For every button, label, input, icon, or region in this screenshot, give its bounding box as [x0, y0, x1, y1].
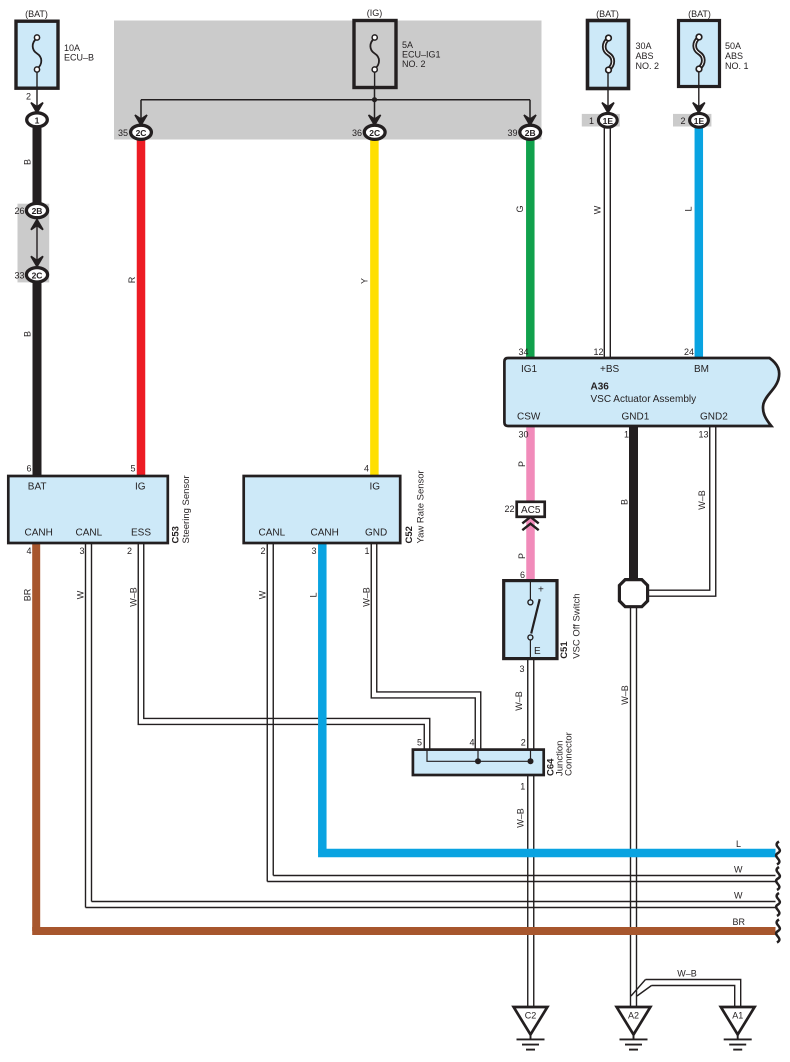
svg-text:2B: 2B — [525, 128, 536, 138]
svg-text:50A: 50A — [725, 41, 741, 51]
svg-text:L: L — [684, 206, 694, 211]
svg-text:+BS: +BS — [600, 364, 620, 375]
wire P: AC5 to C51 pin 6 — [526, 516, 535, 581]
arrow into 1E (2) — [693, 103, 705, 113]
wire B: 2C to C53 BAT pin 6 — [33, 280, 42, 476]
svg-text:6: 6 — [26, 464, 31, 474]
ground symbol C2 — [517, 1035, 545, 1050]
connector oval 2B (39) — [520, 125, 541, 139]
wire: double arrow link 2B to 2C — [36, 220, 38, 265]
wire: fuse 50A lead — [698, 75, 700, 108]
wire R: connector 2C(35) to C53 IG pin 5 — [137, 139, 146, 476]
svg-text:A1: A1 — [732, 1011, 743, 1021]
svg-text:10A: 10A — [64, 43, 80, 53]
svg-text:3: 3 — [79, 546, 84, 556]
svg-text:CANH: CANH — [25, 528, 53, 539]
svg-text:(BAT): (BAT) — [688, 9, 711, 19]
arrow into 2C (36) — [369, 115, 381, 125]
svg-text:2: 2 — [127, 546, 132, 556]
gray panel (2B/2C in-line connector) — [18, 204, 50, 283]
svg-text:5A: 5A — [402, 40, 413, 50]
svg-text:34: 34 — [518, 347, 528, 357]
svg-text:C52: C52 — [404, 526, 415, 543]
gray tag behind 1E connector 2 — [673, 114, 711, 127]
wire L: connector 1E(2) to A36 BM pin 24 — [695, 127, 704, 358]
connector oval 1E (2) — [690, 113, 709, 127]
svg-text:1: 1 — [589, 116, 594, 126]
junction dot C64 pin2 — [528, 758, 534, 764]
svg-text:(BAT): (BAT) — [596, 9, 619, 19]
ground triangle A2 — [617, 1007, 651, 1035]
fuse 5A ECU-IG1 NO.2 — [354, 21, 396, 88]
bus W lower — [86, 902, 776, 908]
svg-text:22: 22 — [504, 504, 514, 514]
svg-text:35: 35 — [118, 128, 128, 138]
svg-text:2: 2 — [680, 116, 685, 126]
svg-text:36: 36 — [352, 128, 362, 138]
svg-text:13: 13 — [698, 430, 708, 440]
junction dot under IG fuse — [372, 97, 377, 102]
wire: fuse 50A inner lead — [698, 72, 700, 87]
wire W-B: C52 GND pin 1 to C64 pin 4 — [371, 543, 481, 750]
connector oval 2B (26) with arrows — [31, 220, 43, 230]
fuse 50A ABS NO.1 — [679, 21, 720, 87]
connector oval 1E (1) — [598, 113, 617, 127]
wire W-B: A36 GND2 pin 13 down and left into octagon — [647, 426, 716, 596]
wire Y: connector 2C(36) to C52 IG pin 4 — [370, 139, 379, 476]
octagon junction — [619, 580, 647, 607]
svg-text:33: 33 — [14, 271, 24, 281]
connector oval 2C (36) — [364, 125, 385, 139]
arrow into connector 1 — [31, 103, 43, 113]
svg-text:C2: C2 — [525, 1011, 537, 1021]
wire: fuse 10A lead to connector 1 — [36, 88, 38, 108]
svg-text:C51: C51 — [559, 641, 570, 659]
svg-text:VSC Off Switch: VSC Off Switch — [572, 594, 583, 659]
wire: IG fuse lead and branch line — [141, 88, 530, 120]
svg-text:IG: IG — [370, 482, 381, 493]
wire: fuse 30A inner lead — [607, 73, 609, 89]
wire W: C53 CANL pin 3 to lower W bus — [86, 543, 92, 908]
svg-text:W: W — [258, 590, 268, 599]
svg-text:L: L — [736, 839, 741, 849]
svg-text:ABS: ABS — [725, 51, 743, 61]
svg-text:NO. 1: NO. 1 — [725, 61, 749, 71]
svg-text:CANH: CANH — [311, 528, 339, 539]
wire W: connector 1E(1) to A36 +BS pin 12 — [604, 127, 610, 358]
svg-text:12: 12 — [593, 347, 603, 357]
wire P: A36 CSW pin 30 to AC5 — [526, 426, 535, 502]
arrow into 1E (1) — [602, 103, 614, 113]
svg-text:26: 26 — [14, 206, 24, 216]
svg-text:GND1: GND1 — [622, 412, 650, 423]
svg-text:2C: 2C — [136, 128, 147, 138]
svg-text:A2: A2 — [628, 1011, 639, 1021]
fuse 30A ABS NO.2 — [588, 21, 629, 89]
svg-text:1: 1 — [35, 115, 40, 125]
svg-text:2: 2 — [26, 92, 31, 102]
arrow into 2C (35) — [135, 115, 147, 125]
bus L — [318, 849, 775, 858]
wire: fuse 10A inner lead — [36, 72, 38, 88]
svg-text:5: 5 — [417, 738, 422, 748]
svg-text:3: 3 — [311, 546, 316, 556]
wire W-B: C51 pin 3 through C64 pin 2/1 to C2 ground triangle — [528, 659, 534, 1007]
connector oval 1 — [27, 113, 48, 127]
svg-text:VSC Actuator Assembly: VSC Actuator Assembly — [591, 394, 697, 405]
svg-text:CANL: CANL — [76, 528, 103, 539]
svg-text:1: 1 — [364, 546, 369, 556]
junction connector C64 — [413, 750, 544, 775]
svg-text:5: 5 — [130, 464, 135, 474]
wire B: connector 1 to 2B — [33, 126, 42, 205]
svg-text:G: G — [515, 205, 525, 212]
bus continuation marks — [776, 842, 780, 865]
svg-text:W: W — [734, 865, 743, 875]
svg-text:GND: GND — [365, 528, 387, 539]
svg-text:2: 2 — [260, 546, 265, 556]
svg-text:Yaw Rate Sensor: Yaw Rate Sensor — [416, 470, 427, 543]
svg-text:AC5: AC5 — [521, 505, 541, 516]
svg-text:2B: 2B — [32, 206, 43, 216]
svg-text:(IG): (IG) — [367, 8, 383, 18]
svg-text:ABS: ABS — [636, 51, 654, 61]
junction dot C64 pin4 — [475, 758, 481, 764]
svg-text:E: E — [534, 646, 541, 657]
ground triangle A1 — [721, 1007, 755, 1035]
svg-text:W–B: W–B — [620, 685, 630, 705]
svg-text:ECU–B: ECU–B — [64, 53, 94, 63]
bus BR — [32, 927, 775, 935]
svg-text:L: L — [309, 592, 319, 597]
svg-text:A36: A36 — [591, 382, 610, 393]
svg-text:C53: C53 — [171, 526, 182, 543]
svg-text:1: 1 — [624, 430, 629, 440]
svg-text:1: 1 — [520, 782, 525, 792]
svg-text:B: B — [620, 499, 630, 505]
wire: fuse 30A lead — [607, 75, 609, 108]
svg-text:BR: BR — [732, 917, 745, 927]
connector oval 2C (35) — [131, 125, 152, 139]
wire W: C52 CANL pin 2 to upper W bus — [267, 543, 273, 882]
svg-text:IG1: IG1 — [521, 364, 538, 375]
wire W-B: octagon to A2 ground triangle — [631, 606, 637, 1007]
sensor C52 Yaw Rate Sensor — [244, 476, 401, 543]
wire W-B: C53 ESS pin 2 to C64 pin 5 — [138, 543, 430, 750]
switch C51 VSC Off Switch — [504, 581, 557, 659]
wire G: connector 2B(39) to A36 IG1 pin 34 — [526, 139, 535, 358]
svg-text:ECU–IG1: ECU–IG1 — [402, 50, 441, 60]
svg-text:3: 3 — [519, 664, 524, 674]
svg-text:CANL: CANL — [259, 528, 286, 539]
svg-text:W: W — [734, 891, 743, 901]
svg-text:IG: IG — [135, 482, 146, 493]
svg-text:CSW: CSW — [517, 412, 541, 423]
svg-text:B: B — [23, 331, 33, 337]
svg-text:GND2: GND2 — [700, 412, 728, 423]
svg-text:W–B: W–B — [514, 691, 524, 711]
svg-text:4: 4 — [364, 464, 369, 474]
connector AC5 — [517, 502, 545, 517]
svg-text:W–B: W–B — [516, 808, 526, 828]
wire BR: C53 CANH pin 4 to BR bus — [32, 543, 40, 931]
svg-text:R: R — [127, 276, 137, 283]
svg-text:W: W — [76, 590, 86, 599]
svg-text:W–B: W–B — [362, 587, 372, 607]
svg-text:BR: BR — [23, 588, 33, 601]
svg-text:W–B: W–B — [129, 587, 139, 607]
svg-text:(BAT): (BAT) — [25, 9, 48, 19]
ground symbol A2 — [620, 1035, 648, 1050]
svg-text:NO. 2: NO. 2 — [636, 61, 660, 71]
wire: fuse 5A inner lead — [374, 72, 376, 88]
svg-text:4: 4 — [26, 546, 31, 556]
gray tag behind 1E connector 1 — [582, 114, 620, 127]
chevrons below AC5 — [522, 517, 538, 530]
wire W-B branch: A2 wire to A1 ground triangle — [631, 980, 741, 1008]
svg-text:Connector: Connector — [564, 732, 575, 776]
svg-text:P: P — [517, 461, 527, 467]
gray panel (IG fuse block area) — [114, 21, 542, 140]
svg-text:2: 2 — [521, 738, 526, 748]
svg-text:B: B — [23, 159, 33, 165]
svg-text:BM: BM — [694, 364, 709, 375]
svg-text:W: W — [593, 205, 603, 214]
svg-text:39: 39 — [507, 128, 517, 138]
svg-text:24: 24 — [684, 347, 694, 357]
ECU A36 VSC Actuator Assembly — [504, 358, 779, 426]
svg-text:2C: 2C — [32, 270, 43, 280]
fuse 10A ECU-B — [16, 21, 58, 88]
wire L: C52 CANH pin 3 to L bus — [318, 543, 327, 853]
svg-text:2C: 2C — [369, 128, 380, 138]
svg-text:Steering Sensor: Steering Sensor — [181, 475, 192, 543]
svg-text:BAT: BAT — [28, 482, 47, 493]
bus W upper — [267, 876, 775, 882]
svg-text:30: 30 — [518, 430, 528, 440]
svg-text:1E: 1E — [603, 116, 614, 126]
ground symbol A1 — [724, 1035, 752, 1050]
svg-text:+: + — [538, 585, 544, 596]
sensor C53 Steering Sensor — [8, 476, 168, 543]
svg-text:30A: 30A — [636, 41, 652, 51]
svg-text:4: 4 — [469, 738, 474, 748]
svg-text:P: P — [517, 553, 527, 559]
svg-text:W–B: W–B — [677, 969, 697, 979]
svg-text:Y: Y — [360, 278, 370, 284]
ground triangle C2 — [514, 1007, 548, 1035]
svg-text:NO. 2: NO. 2 — [402, 59, 426, 69]
svg-text:1E: 1E — [694, 116, 705, 126]
arrow into 2B (39) — [524, 115, 536, 125]
svg-text:6: 6 — [520, 570, 525, 580]
wire B: A36 GND1 pin 1 to octagon junction — [629, 426, 638, 581]
svg-text:W–B: W–B — [697, 490, 707, 510]
svg-text:ESS: ESS — [131, 528, 151, 539]
connector oval 2C (33) — [26, 268, 47, 282]
